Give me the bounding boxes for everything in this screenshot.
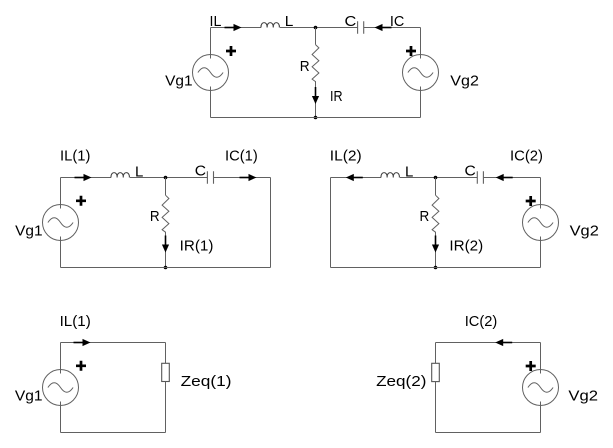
label IC(1) (mid) [225,148,258,165]
wire left vertical lower (mid-left) [60,237,62,268]
label L (top) [285,13,294,30]
wire mid-right: inductor to capacitor [400,177,477,179]
wire right vertical upper (mid-right) [540,178,542,209]
wire bottom horizontal (bottom-right) [436,432,541,434]
svg-text:IC(2): IC(2) [465,313,498,330]
svg-text:IC(1): IC(1) [225,148,258,165]
plus polarity Vg1 (top) [226,46,236,56]
wire right vertical (mid-left) [270,178,272,268]
label Vg1 (bottom) [15,388,43,405]
node junction bottom of R (top) [314,116,318,120]
voltage source Vg2 (top) [403,55,439,91]
wire left vertical lower (top) [210,87,212,118]
label IR(1) (mid) [180,238,214,255]
svg-text:IR(2): IR(2) [449,238,483,255]
svg-text:C: C [195,163,206,180]
svg-text:IR: IR [330,88,343,105]
label L (mid-left) [135,163,143,180]
impedance Zeq(2) box [432,363,440,381]
wire R branch lower (mid-right) [435,232,437,268]
wire right vertical lower (bottom-left) [165,382,167,433]
svg-text:Vg1: Vg1 [15,388,43,405]
node junction top of R (mid-right) [434,176,438,180]
plus polarity Vg2 (top) [406,46,416,56]
node junction top of R (mid-left) [164,176,168,180]
svg-text:R: R [150,208,160,225]
svg-text:IL(1): IL(1) [60,148,90,165]
resistor R (top) [312,45,319,82]
wire bottom horizontal (bottom-left) [61,432,166,434]
svg-text:L: L [135,163,143,180]
wire R branch upper (mid-right) [435,178,437,196]
label IC(2) (mid) [510,148,543,165]
wire R branch lower (top) [315,81,317,117]
svg-text:R: R [300,58,310,75]
wire R branch lower (mid-left) [165,232,167,268]
wire right vertical lower (top) [420,87,422,118]
svg-text:IL(1): IL(1) [60,313,91,330]
current arrow IC(1) (right) [240,174,257,181]
label IR (top) [330,88,343,105]
wire right vertical upper (bottom-right) [540,343,542,374]
current arrow IC(2) (left) [496,174,513,181]
svg-text:R: R [420,208,430,225]
svg-text:Vg2: Vg2 [568,388,598,405]
wire right vertical lower (bottom-right) [540,402,542,433]
svg-text:Zeq(1): Zeq(1) [181,373,232,390]
current arrow IL(2) (left) [346,174,363,181]
wire right vertical upper (top) [420,28,422,59]
svg-text:Vg1: Vg1 [15,223,43,240]
wire mid-left: Vg1 corner to inductor [61,177,112,179]
wire bottom horizontal (mid-left) [61,267,271,269]
label IL (top) [210,13,222,30]
node junction bottom of R (mid-right) [434,266,438,270]
svg-text:Vg1: Vg1 [165,73,193,90]
capacitor C (mid-left) [207,171,213,184]
wire left vertical lower (bottom-right) [435,382,437,433]
current arrow IL(1) (right) [75,174,92,181]
current arrow IL(1) (bottom-left, right) [74,339,91,346]
wire left vertical upper (top) [210,28,212,59]
current arrow IR(1) (down) [162,236,169,253]
wire bottom horizontal (top) [211,117,421,119]
wire right vertical lower (mid-right) [540,237,542,268]
wire mid-right: capacitor to Vg2 corner [483,177,540,179]
label L (mid-right) [405,163,413,180]
wire right vertical upper (bottom-left) [165,343,167,364]
label C (top) [345,13,357,30]
wire left vertical upper (bottom-left) [60,343,62,374]
label IR(2) (mid) [449,238,483,255]
voltage source Vg1 (mid-left) [43,205,79,241]
wire top circuit: capacitor to Vg2 top corner [364,27,421,29]
voltage source Vg2 (mid-right) [523,205,559,241]
svg-text:Vg2: Vg2 [450,73,479,90]
svg-text:Zeq(2): Zeq(2) [376,373,426,390]
inductor L (mid-left) [111,173,129,178]
label R (mid-left) [150,208,160,225]
label Vg2 (bottom) [568,388,598,405]
wire top circuit: inductor to capacitor [280,27,358,29]
label Vg1 (mid) [15,223,43,240]
wire left vertical lower (bottom-left) [60,402,62,433]
current arrow IR(2) (down) [432,236,439,253]
impedance Zeq(1) box [162,363,170,381]
label IC (top) [390,13,405,30]
label Zeq(1) [181,373,232,390]
label IL(2) (mid) [330,148,362,165]
wire top circuit: Vg1 top corner to inductor [211,27,262,29]
svg-text:IC(2): IC(2) [510,148,543,165]
wire R branch upper (top) [315,28,317,45]
voltage source Vg1 (top) [193,55,229,91]
resistor R (mid-left) [162,195,169,232]
label R (mid-right) [420,208,430,225]
wire bottom horizontal (mid-right) [331,267,541,269]
label C (mid-left) [195,163,206,180]
wire R branch upper (mid-left) [165,178,167,196]
wire mid-left: inductor to capacitor [130,177,207,179]
current arrow IR (top, down) [312,87,319,104]
resistor R (mid-right) [432,195,439,232]
plus polarity Vg2 (mid-right) [526,196,536,206]
inductor L (top) [261,23,279,28]
voltage source Vg1 (bottom-left) [43,370,79,406]
capacitor C (mid-right) [477,171,483,184]
svg-text:L: L [285,13,294,30]
svg-text:C: C [345,13,357,30]
svg-text:IL: IL [210,13,222,30]
plus polarity Vg1 (mid-left) [76,196,86,206]
inductor L (mid-right) [381,173,399,178]
current arrow IC(2) (bottom-right, left) [495,339,512,346]
node junction bottom of R (mid-left) [164,266,168,270]
label Vg2 (mid) [570,223,599,240]
label IC(2) (bottom) [465,313,498,330]
label C (mid-right) [465,163,476,180]
svg-text:L: L [405,163,413,180]
label IL(1) (mid) [60,148,90,165]
wire top horizontal (bottom-left) [61,342,166,344]
voltage source Vg2 (bottom-right) [523,370,559,406]
plus polarity Vg1 (bottom-left) [76,361,86,371]
svg-text:IR(1): IR(1) [180,238,214,255]
label Zeq(2) [376,373,426,390]
wire left vertical upper (mid-left) [60,178,62,209]
current arrow IL (top, right) [225,24,242,31]
svg-text:C: C [465,163,476,180]
node junction top of R (top) [314,26,318,30]
wire mid-left: capacitor to right corner [214,177,271,179]
wire top horizontal (bottom-right) [436,342,541,344]
current arrow IC (top, left) [375,24,392,31]
label IL(1) (bottom) [60,313,91,330]
plus polarity Vg2 (bottom-right) [526,361,536,371]
svg-text:Vg2: Vg2 [570,223,599,240]
svg-text:IL(2): IL(2) [330,148,362,165]
wire left vertical upper (bottom-right) [435,343,437,364]
wire left vertical (mid-right) [330,178,332,268]
wire mid-right: left corner to inductor [331,177,382,179]
label Vg2 (top) [450,73,479,90]
label R (top) [300,58,310,75]
svg-text:IC: IC [390,13,405,30]
capacitor C (top) [358,21,364,34]
label Vg1 (top) [165,73,193,90]
